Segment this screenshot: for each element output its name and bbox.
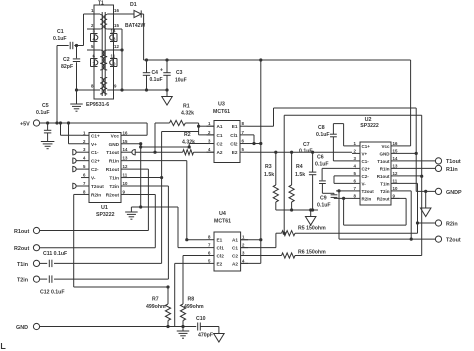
op-amp U1 SP3222 box: [89, 133, 121, 203]
svg-text:Cl1: Cl1: [230, 133, 238, 138]
wire U2 GND pin15: [400, 152, 417, 154]
U2 pin stubs left: [352, 145, 360, 147]
svg-text:R1out: R1out: [14, 229, 29, 235]
svg-text:V+: V+: [362, 151, 368, 156]
U4 pin stubs left: [207, 239, 215, 241]
capacitor C2 82pF: [75, 44, 78, 47]
wire R2in port row: [418, 222, 436, 224]
svg-text:C7: C7: [303, 142, 310, 148]
wire U2 pin5 pin6 loop: [334, 175, 352, 177]
svg-text:U1: U1: [101, 205, 108, 211]
svg-text:R2in: R2in: [91, 192, 101, 197]
svg-text:12: 12: [393, 171, 398, 176]
svg-text:R6 150ohm: R6 150ohm: [298, 249, 326, 255]
svg-text:0.1uF: 0.1uF: [316, 132, 330, 138]
port T1out: [435, 158, 441, 164]
svg-text:R2: R2: [184, 132, 191, 138]
svg-text:0.1uF: 0.1uF: [299, 149, 313, 155]
capacitor C6 0.1uF charge pump: [322, 167, 352, 169]
svg-text:A2: A2: [232, 261, 238, 266]
svg-text:R2in: R2in: [446, 222, 458, 228]
svg-text:E1: E1: [217, 238, 223, 243]
capacitor C1 0.1uF: [57, 45, 69, 47]
transformer pins left: [87, 13, 100, 15]
capacitor C10 470pF: [197, 323, 199, 331]
svg-text:C4: C4: [152, 70, 159, 76]
wire +5V to U1 pin1: [59, 121, 62, 124]
svg-text:R4: R4: [296, 164, 303, 170]
svg-text:11: 11: [123, 173, 128, 178]
svg-text:499ohm: 499ohm: [184, 304, 204, 310]
svg-text:E2: E2: [232, 150, 238, 155]
wire U3 E1 pin8 to isolated gnd rail: [248, 125, 274, 127]
svg-text:T1out: T1out: [106, 150, 119, 155]
svg-text:A2: A2: [217, 150, 223, 155]
svg-text:Vcc: Vcc: [111, 133, 120, 138]
wire R2out: [40, 247, 156, 249]
svg-text:10uF: 10uF: [175, 78, 187, 84]
svg-text:12: 12: [123, 164, 128, 169]
svg-text:0.1uF: 0.1uF: [315, 162, 329, 168]
svg-text:T2in: T2in: [109, 184, 119, 189]
port R1out: [33, 227, 39, 233]
wire U2 T2out pin7 outer loop: [336, 190, 352, 192]
svg-text:0.1uF: 0.1uF: [150, 77, 163, 83]
svg-text:GND: GND: [16, 325, 28, 331]
svg-text:R3: R3: [265, 164, 272, 170]
svg-text:0.1uF: 0.1uF: [36, 110, 50, 116]
svg-text:C1: C1: [57, 29, 64, 35]
U3 pin stubs right: [240, 125, 248, 127]
svg-text:T2out: T2out: [91, 184, 104, 189]
wire isolated +5V rail: [143, 14, 145, 60]
svg-text:Cl1: Cl1: [217, 246, 225, 251]
svg-text:14: 14: [393, 156, 398, 161]
svg-text:C1: C1: [217, 133, 223, 138]
svg-text:15: 15: [114, 23, 119, 28]
transformer windings right: [104, 15, 107, 30]
svg-text:13: 13: [123, 156, 128, 161]
U4 pin stubs right: [241, 239, 248, 241]
wire U2 T1in pin11: [400, 182, 418, 184]
wire second nested rail: [284, 114, 422, 116]
resistor R6 150ohm: [241, 255, 282, 257]
svg-text:C2: C2: [63, 57, 70, 63]
corner mark: [2, 343, 6, 349]
wire U1 R2in pin8 to R7: [74, 193, 81, 195]
svg-text:16: 16: [114, 8, 119, 13]
U1 charge pump capacitor pin5: [73, 166, 76, 171]
capacitor C4 0.1uF: [145, 58, 148, 61]
svg-text:MCT61: MCT61: [213, 109, 230, 115]
svg-text:R5 150ohm: R5 150ohm: [298, 226, 326, 232]
node C2/ground: [75, 88, 78, 91]
capacitor C7 0.1uF: [311, 151, 314, 154]
port T1in: [33, 260, 39, 266]
svg-text:C1-: C1-: [362, 159, 370, 164]
wire U4 pin7 to U1 gnd loop: [178, 247, 207, 249]
isolated ground triangle middle: [305, 217, 316, 226]
svg-text:T2in: T2in: [380, 189, 390, 194]
resistor R5 150ohm: [276, 232, 282, 234]
svg-text:T1in: T1in: [109, 176, 119, 181]
svg-text:10: 10: [393, 186, 398, 191]
svg-text:SP3222: SP3222: [360, 123, 379, 129]
svg-text:T2out: T2out: [446, 238, 461, 244]
svg-text:C10: C10: [196, 316, 206, 322]
svg-text:C2+: C2+: [91, 159, 100, 164]
wire U4 pin6 to R8: [183, 255, 207, 257]
resistor R1 4.32k: [154, 123, 156, 152]
svg-text:C3: C3: [176, 70, 183, 76]
vertical bus from +5V rail to U4: [259, 58, 262, 61]
svg-text:R1in: R1in: [380, 166, 390, 171]
wire +5V rail: [40, 122, 148, 124]
port R2out: [33, 245, 39, 251]
svg-text:12: 12: [114, 44, 119, 49]
svg-text:C5: C5: [42, 103, 49, 109]
svg-text:C2+: C2+: [362, 166, 371, 171]
resistor R4 1.5k: [290, 151, 293, 154]
svg-text:C1+: C1+: [362, 144, 371, 149]
svg-text:1.5k: 1.5k: [295, 172, 305, 178]
svg-text:82pF: 82pF: [61, 64, 73, 70]
resistor R2 4.32k: [183, 150, 194, 155]
U3 pin stubs left: [207, 125, 215, 127]
svg-text:C2-: C2-: [362, 174, 370, 179]
svg-text:C2-: C2-: [91, 167, 99, 172]
wire U1 T2in pin10 to port: [129, 185, 168, 187]
wire R1out: [40, 230, 149, 232]
svg-text:14: 14: [111, 29, 116, 34]
wire isolated gnd bottom rail: [276, 209, 318, 211]
wire U2 T2in pin10: [400, 190, 412, 192]
wire isolated ground rail top: [122, 89, 167, 91]
svg-text:R2out: R2out: [14, 246, 29, 252]
ground below transformer: [70, 103, 83, 105]
svg-text:C2: C2: [232, 254, 238, 259]
svg-text:T2in: T2in: [17, 278, 28, 284]
wire R1 to U3 pin1: [198, 123, 200, 126]
wire U1 T1out pin14 via cap: [132, 150, 135, 155]
svg-text:Vcc: Vcc: [381, 144, 390, 149]
svg-text:10: 10: [123, 181, 128, 186]
wire transformer pin1 to C1 node: [84, 13, 88, 15]
svg-text:D1: D1: [130, 2, 137, 8]
svg-text:0.1uF: 0.1uF: [317, 203, 331, 209]
svg-text:16: 16: [393, 141, 398, 146]
svg-text:T2out: T2out: [362, 189, 375, 194]
wire GNDP to port: [416, 190, 435, 192]
capacitor C5 0.1uF: [47, 123, 49, 130]
wire to chassis triangle: [218, 327, 220, 334]
wire U4 pin5 to GND rail: [175, 262, 207, 264]
port GND: [33, 323, 39, 329]
port R1in: [435, 165, 441, 171]
wire U2 R1in pin13 to port: [400, 167, 436, 169]
capacitor C3 10uF: [165, 58, 168, 61]
svg-text:C8: C8: [318, 125, 325, 131]
svg-text:MCT61: MCT61: [214, 219, 231, 225]
svg-text:T1in: T1in: [17, 262, 28, 268]
wire U2 R1out pin12: [400, 175, 422, 177]
svg-text:T1out: T1out: [377, 159, 390, 164]
svg-text:0.1uF: 0.1uF: [53, 36, 67, 42]
ground below C5: [41, 141, 55, 143]
svg-text:470pF: 470pF: [198, 333, 213, 339]
isolated ground triangle top: [162, 97, 173, 106]
wire U3 pin2 from R1 node: [198, 126, 200, 135]
svg-text:C1-: C1-: [91, 150, 99, 155]
wire U2 Vcc pin16: [400, 145, 411, 147]
wire to U1 pin2: [67, 121, 70, 124]
svg-text:R1: R1: [183, 104, 190, 110]
transformer windings left: [100, 15, 103, 30]
svg-text:4.32k: 4.32k: [182, 140, 195, 146]
transformer pins right: [107, 13, 120, 15]
svg-text:R7: R7: [152, 297, 159, 303]
ground below U1: [125, 211, 137, 213]
wire isolated gnd rail GNDP: [274, 107, 417, 109]
svg-text:T1in: T1in: [380, 181, 390, 186]
port T2in: [33, 276, 39, 282]
isolated ground triangle right: [420, 208, 431, 217]
capacitor C8 0.1uF charge pump: [330, 133, 337, 135]
wire U3 pin3 to GND riser: [189, 143, 214, 145]
svg-text:C6: C6: [317, 155, 324, 161]
wire U1 GND pin15 loop: [129, 143, 141, 145]
svg-text:U3: U3: [218, 102, 225, 108]
svg-text:15: 15: [123, 139, 128, 144]
wire U4 pin4 from bus: [241, 262, 261, 264]
resistor R8 499ohm: [180, 304, 185, 321]
svg-text:13: 13: [393, 163, 398, 168]
svg-text:16: 16: [123, 130, 128, 135]
wire U4 pin2 up to R5: [241, 247, 276, 249]
svg-text:V-: V-: [362, 181, 367, 186]
svg-text:Cl2: Cl2: [230, 142, 238, 147]
svg-text:U4: U4: [219, 211, 226, 217]
wire U1 R1out pin12 to port: [129, 168, 148, 170]
wire +5V to C1: [56, 46, 58, 124]
wire U2 T1out pin14 to port: [400, 160, 436, 162]
svg-text:R1out: R1out: [377, 174, 390, 179]
svg-text:A1: A1: [232, 238, 238, 243]
svg-text:V+: V+: [91, 142, 97, 147]
capacitor C12 0.1uF: [40, 278, 48, 280]
svg-text:R1in: R1in: [446, 167, 458, 173]
wire U3 pin5 collector line: [248, 151, 313, 153]
svg-text:Cl2: Cl2: [217, 254, 225, 259]
optocoupler U3 MCT61 box: [214, 121, 240, 163]
svg-text:+: +: [160, 68, 163, 74]
wire T2out port: [411, 238, 435, 240]
wire U2 R2out pin9 inner loop: [391, 197, 406, 199]
wire U1 Vcc pin16: [146, 123, 148, 135]
port T2out: [435, 236, 441, 242]
wire GND rail: [40, 326, 197, 328]
svg-text:GNDP: GNDP: [446, 190, 462, 196]
svg-text:+5V: +5V: [20, 122, 30, 128]
svg-text:E2: E2: [217, 261, 223, 266]
wire U4 pin8 row: [187, 239, 207, 241]
svg-text:C9: C9: [320, 196, 327, 202]
wire U1 R1in pin13 to U4: [129, 160, 187, 162]
U1 capacitor pin7: [73, 183, 76, 188]
svg-text:A1: A1: [217, 124, 223, 129]
U2 pin stubs right: [391, 145, 400, 147]
op-amp U2 SP3222 box: [360, 142, 391, 205]
svg-text:R2in: R2in: [362, 196, 372, 201]
capacitor C11 0.1uF: [40, 262, 48, 264]
svg-text:C11 0.1uF: C11 0.1uF: [43, 251, 67, 257]
wire U1 T1in pin11 to port: [129, 177, 162, 179]
svg-text:GND: GND: [109, 142, 120, 147]
wire over to T1in riser: [162, 131, 199, 133]
diode D1 BAT42W: [121, 13, 135, 15]
capacitor C9 0.1uF: [333, 192, 335, 195]
svg-text:R2out: R2out: [106, 192, 120, 197]
wire U3 pin7 collector loop: [248, 134, 255, 136]
U1 pin stubs right: [121, 134, 129, 136]
U1 charge pump capacitor pin3: [73, 150, 76, 155]
svg-text:R1out: R1out: [106, 167, 120, 172]
U1 pin stubs left: [81, 134, 89, 136]
svg-text:C12 0.1uF: C12 0.1uF: [40, 289, 65, 295]
U1 charge pump capacitor pin4: [73, 158, 76, 163]
svg-text:EP9531-6: EP9531-6: [86, 102, 109, 108]
port +5V: [33, 120, 39, 126]
svg-text:11: 11: [393, 178, 398, 183]
svg-text:SP3222: SP3222: [96, 212, 115, 218]
ground below R8: [182, 327, 184, 331]
svg-text:11: 11: [111, 54, 116, 59]
svg-text:4.32k: 4.32k: [181, 111, 194, 117]
svg-text:14: 14: [123, 147, 128, 152]
svg-text:R8: R8: [188, 297, 195, 303]
svg-text:C1+: C1+: [91, 133, 100, 138]
svg-text:C1: C1: [232, 246, 238, 251]
wire transformer pin8 to C2 node: [77, 89, 88, 91]
resistor R7 499ohm: [166, 285, 169, 288]
port R2in: [435, 220, 441, 226]
wire U1 R2out pin9 to port: [129, 193, 155, 195]
isolated ground triangle bottom: [214, 334, 225, 343]
svg-text:BAT42W: BAT42W: [125, 23, 145, 29]
resistor R3 1.5k: [274, 151, 277, 154]
svg-text:E1: E1: [232, 124, 238, 129]
wire U4 pin1 to bus: [241, 239, 261, 241]
svg-text:V-: V-: [91, 176, 96, 181]
wire transformer right tie: [121, 29, 123, 90]
wire U3 pin6 to vertical bus: [248, 143, 261, 145]
svg-text:1.5k: 1.5k: [264, 172, 274, 178]
svg-text:R2out: R2out: [377, 196, 390, 201]
wire V+ long line to U2 pin2: [313, 151, 352, 153]
optocoupler U4 MCT61 box: [214, 232, 241, 271]
port GNDP: [435, 188, 441, 194]
svg-text:R1in: R1in: [109, 159, 119, 164]
svg-text:T1out: T1out: [446, 159, 461, 165]
svg-text:15: 15: [393, 148, 398, 153]
svg-text:GND: GND: [380, 151, 391, 156]
svg-text:C2: C2: [217, 142, 223, 147]
svg-text:499ohm: 499ohm: [146, 304, 166, 310]
